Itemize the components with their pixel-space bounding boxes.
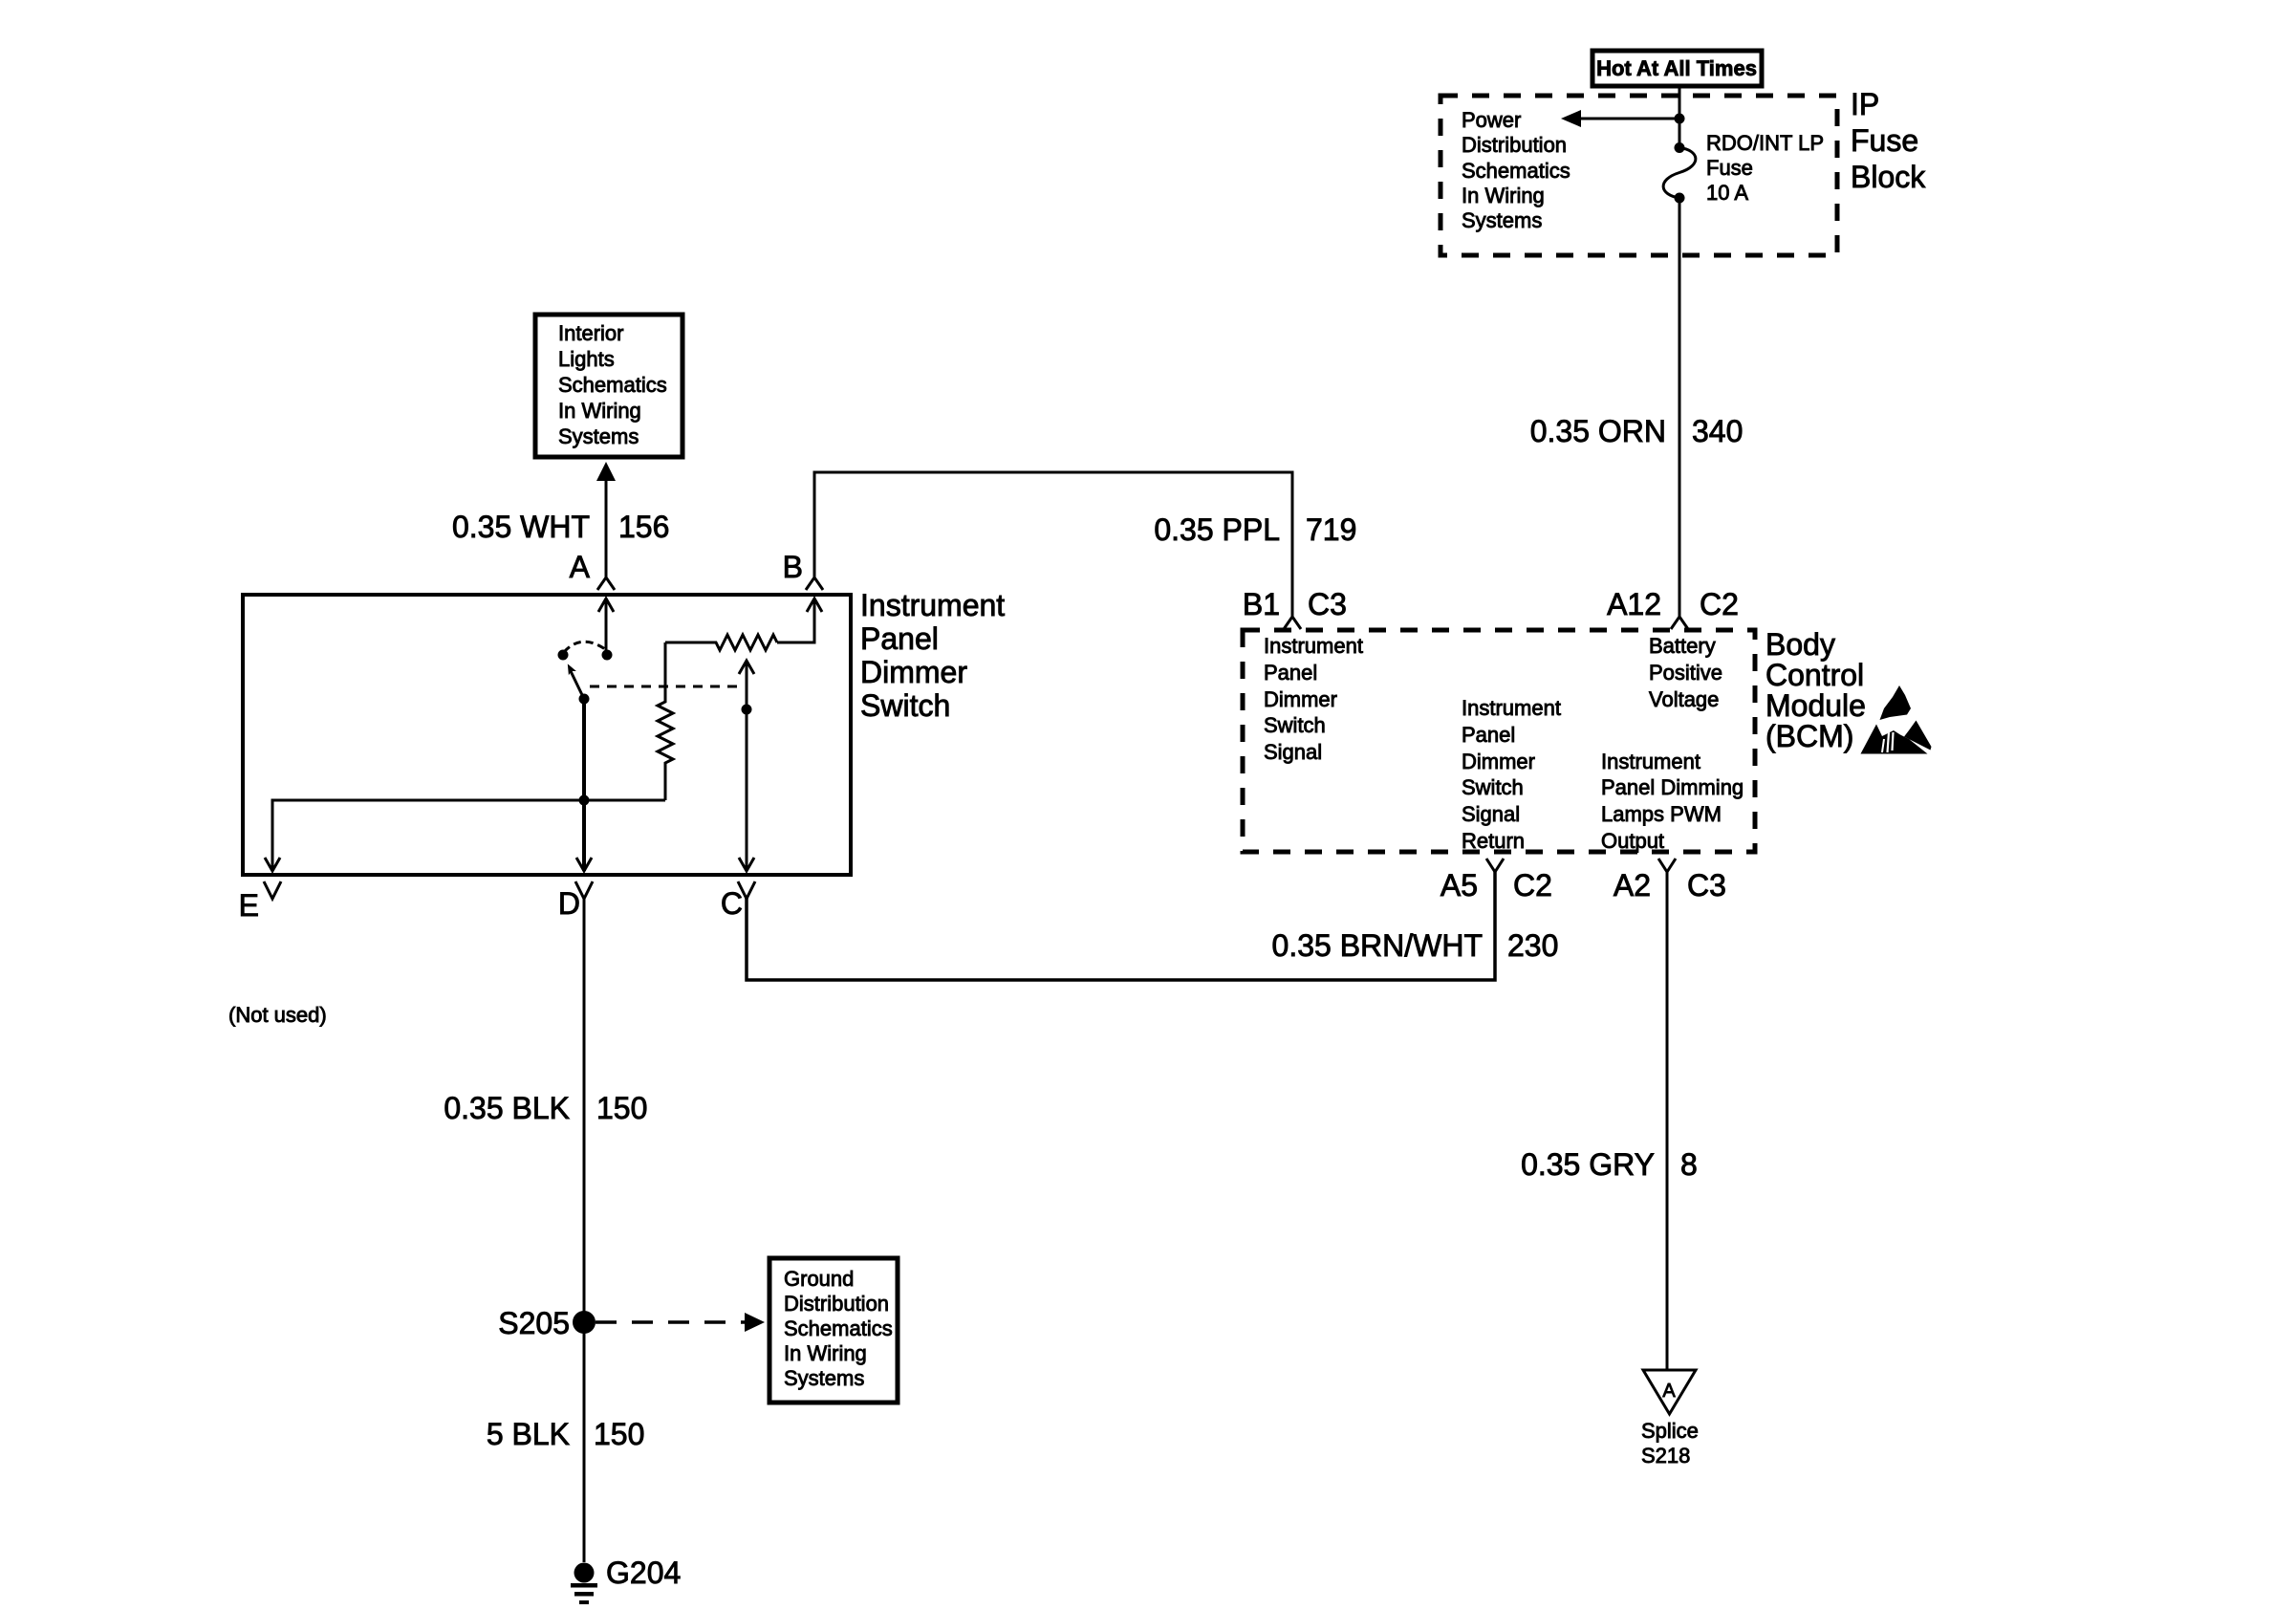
svg-text:8: 8 [1680, 1147, 1698, 1182]
box Ground Distribution Schematics [769, 1258, 898, 1403]
svg-text:C2: C2 [1700, 587, 1739, 621]
svg-text:Voltage: Voltage [1649, 687, 1719, 711]
wire fuse output down to BCM A12 [1679, 198, 1681, 617]
wire arrow to power distribution [1561, 110, 1679, 127]
svg-text:0.35 BLK: 0.35 BLK [444, 1091, 570, 1125]
wire 0.35 WHT 156 from switch A to interior lights [605, 480, 608, 577]
label IP Fuse Block [1851, 87, 1926, 194]
svg-text:0.35 ORN: 0.35 ORN [1530, 414, 1666, 448]
svg-text:Schematics: Schematics [1462, 159, 1570, 183]
pin A of dimmer switch [570, 550, 615, 590]
wire B inside switch [777, 598, 822, 642]
wire battery feed from Hot At All Times into fuse [1679, 86, 1681, 147]
svg-text:C3: C3 [1687, 868, 1726, 903]
label Body Control Module (BCM) [1765, 627, 1866, 753]
svg-text:(Not used): (Not used) [228, 1003, 327, 1027]
svg-text:Panel: Panel [860, 621, 939, 656]
svg-text:Positive: Positive [1649, 661, 1722, 685]
IP fuse block dashed box [1440, 96, 1837, 255]
label Instrument Panel Dimmer Switch [860, 588, 1005, 723]
svg-text:Dimmer: Dimmer [860, 655, 967, 689]
svg-text:C2: C2 [1513, 868, 1552, 903]
svg-text:A5: A5 [1440, 868, 1478, 903]
instrument panel dimmer switch box [243, 595, 851, 875]
svg-text:IP: IP [1851, 87, 1879, 121]
switch contact node left [558, 650, 569, 661]
svg-text:Return: Return [1462, 829, 1525, 853]
svg-text:Module: Module [1765, 688, 1866, 723]
splice S218 triangle [1641, 1370, 1699, 1468]
splice S205 [498, 1306, 596, 1340]
svg-text:Systems: Systems [784, 1366, 864, 1390]
label 5 BLK 150 [487, 1417, 645, 1451]
svg-text:D: D [558, 886, 580, 921]
BCM pin note instrument panel dimmer switch signal [1264, 634, 1363, 764]
label 0.35 GRY 8 [1521, 1147, 1698, 1182]
svg-text:B: B [783, 550, 803, 584]
BCM pin note instrument panel dimming lamps PWM output [1601, 750, 1744, 853]
box Hot At All Times [1592, 51, 1762, 86]
svg-text:Signal: Signal [1264, 740, 1322, 764]
svg-text:Instrument: Instrument [1264, 634, 1363, 658]
pin E not used [228, 881, 327, 1027]
label 0.35 ORN 340 [1530, 414, 1744, 448]
svg-text:(BCM): (BCM) [1765, 719, 1853, 753]
svg-text:RDO/INT LP: RDO/INT LP [1706, 131, 1824, 155]
svg-text:B1: B1 [1243, 587, 1280, 621]
svg-text:G204: G204 [606, 1556, 681, 1590]
wire D inside switch [576, 699, 592, 871]
svg-text:Battery: Battery [1649, 634, 1716, 658]
svg-text:150: 150 [596, 1091, 647, 1125]
body control module dashed box [1243, 630, 1755, 852]
svg-text:Switch: Switch [860, 688, 950, 723]
wire 0.35 PPL 719 from switch B to BCM B1 [814, 472, 1292, 617]
pin C of dimmer switch [721, 881, 755, 921]
svg-text:Signal: Signal [1462, 802, 1520, 826]
ground G204 [571, 1556, 681, 1604]
label 0.35 BLK 150 [444, 1091, 647, 1125]
resistor R1 horizontal [665, 635, 777, 650]
svg-text:A: A [1662, 1381, 1676, 1402]
wiper arrow on wire C [739, 661, 754, 674]
svg-text:Distribution: Distribution [784, 1292, 889, 1316]
svg-text:Block: Block [1851, 160, 1926, 194]
dashed arrow to ground distribution box [596, 1313, 765, 1332]
wire 0.35 BRN/WHT 230 from C to BCM A5 [747, 870, 1495, 980]
svg-text:Output: Output [1601, 829, 1664, 853]
svg-text:Dimmer: Dimmer [1462, 750, 1535, 773]
fuse F RDO/INT LP 10A [1663, 142, 1696, 204]
svg-text:Instrument: Instrument [1601, 750, 1700, 773]
arrow into interior lights box [596, 462, 616, 481]
label 0.35 BRN/WHT 230 [1272, 928, 1559, 963]
pin A12 C2 of BCM [1607, 587, 1739, 629]
svg-text:Ground: Ground [784, 1267, 854, 1291]
svg-text:Switch: Switch [1462, 775, 1524, 799]
svg-text:Power: Power [1462, 108, 1521, 132]
svg-text:5 BLK: 5 BLK [487, 1417, 570, 1451]
svg-text:0.35 PPL: 0.35 PPL [1154, 512, 1280, 547]
label RDO/INT LP Fuse 10 A [1706, 131, 1824, 205]
svg-text:0.35 BRN/WHT: 0.35 BRN/WHT [1272, 928, 1483, 963]
wire C inside switch [739, 661, 754, 871]
svg-text:Panel: Panel [1462, 723, 1515, 747]
pin B1 C3 of BCM [1243, 587, 1347, 629]
junction node on battery feed [1675, 114, 1685, 124]
svg-text:0.35 GRY: 0.35 GRY [1521, 1147, 1655, 1182]
svg-text:Instrument: Instrument [860, 588, 1005, 622]
svg-text:Systems: Systems [1462, 208, 1542, 232]
svg-text:S218: S218 [1641, 1444, 1690, 1468]
pin A5 C2 of BCM [1440, 859, 1552, 903]
svg-text:Body: Body [1765, 627, 1835, 662]
svg-text:340: 340 [1692, 414, 1743, 448]
svg-text:230: 230 [1507, 928, 1558, 963]
svg-text:In Wiring: In Wiring [784, 1341, 867, 1365]
svg-text:A2: A2 [1614, 868, 1651, 903]
svg-text:Panel Dimming: Panel Dimming [1601, 775, 1744, 799]
svg-text:C: C [721, 886, 743, 921]
note Power Distribution Schematics In Wiring Systems [1462, 108, 1570, 232]
svg-text:10 A: 10 A [1706, 181, 1748, 205]
dashed wiper linkage [590, 685, 744, 688]
svg-text:In Wiring: In Wiring [1462, 184, 1545, 207]
svg-text:0.35 WHT: 0.35 WHT [452, 510, 590, 544]
switch arm pivot node [579, 694, 590, 705]
svg-text:Switch: Switch [1264, 713, 1326, 737]
box Interior Lights Schematics [535, 315, 682, 457]
svg-text:Lamps PWM: Lamps PWM [1601, 802, 1722, 826]
svg-text:Lights: Lights [558, 347, 615, 371]
wire 0.35 BLK 150 from D to S205 [583, 897, 586, 1562]
svg-text:150: 150 [594, 1417, 644, 1451]
label 0.35 PPL 719 [1154, 512, 1356, 547]
label 0.35 WHT 156 [452, 510, 669, 544]
ESD sensitivity symbol [1861, 685, 1932, 754]
svg-text:Dimmer: Dimmer [1264, 687, 1337, 711]
svg-text:Splice: Splice [1641, 1419, 1699, 1443]
svg-text:Control: Control [1765, 658, 1864, 692]
dashed arc between switch contacts [564, 642, 605, 652]
junction node on wire C [742, 705, 752, 715]
resistor R2 vertical [658, 642, 673, 800]
wire E inside switch [265, 800, 665, 871]
svg-text:719: 719 [1306, 512, 1356, 547]
pin A2 C3 of BCM [1614, 859, 1726, 903]
svg-text:E: E [239, 888, 259, 923]
switch contact node right [602, 650, 613, 661]
svg-text:Interior: Interior [558, 321, 623, 345]
svg-text:C3: C3 [1308, 587, 1347, 621]
svg-text:Instrument: Instrument [1462, 696, 1561, 720]
svg-text:Schematics: Schematics [558, 373, 667, 397]
svg-text:Fuse: Fuse [1706, 156, 1753, 180]
switch arm with arrowhead [568, 664, 584, 699]
svg-text:A12: A12 [1607, 587, 1661, 621]
svg-text:Systems: Systems [558, 424, 639, 448]
svg-text:A: A [570, 550, 591, 584]
BCM pin note battery positive voltage [1649, 634, 1722, 711]
pin B of dimmer switch [783, 550, 823, 590]
svg-text:156: 156 [618, 510, 669, 544]
wire 0.35 GRY 8 from BCM A2 to splice [1666, 870, 1669, 1369]
svg-text:S205: S205 [498, 1306, 570, 1340]
junction node on wire D [579, 795, 590, 806]
pin D of dimmer switch [558, 881, 593, 921]
svg-text:Schematics: Schematics [784, 1316, 893, 1340]
wire A inside switch [598, 598, 614, 655]
svg-text:Distribution: Distribution [1462, 133, 1567, 157]
svg-text:Fuse: Fuse [1851, 123, 1918, 158]
BCM pin note instrument panel dimmer switch signal return [1462, 696, 1561, 853]
svg-text:Hot At All Times: Hot At All Times [1596, 56, 1757, 80]
svg-text:Panel: Panel [1264, 661, 1317, 685]
svg-text:In Wiring: In Wiring [558, 399, 641, 423]
